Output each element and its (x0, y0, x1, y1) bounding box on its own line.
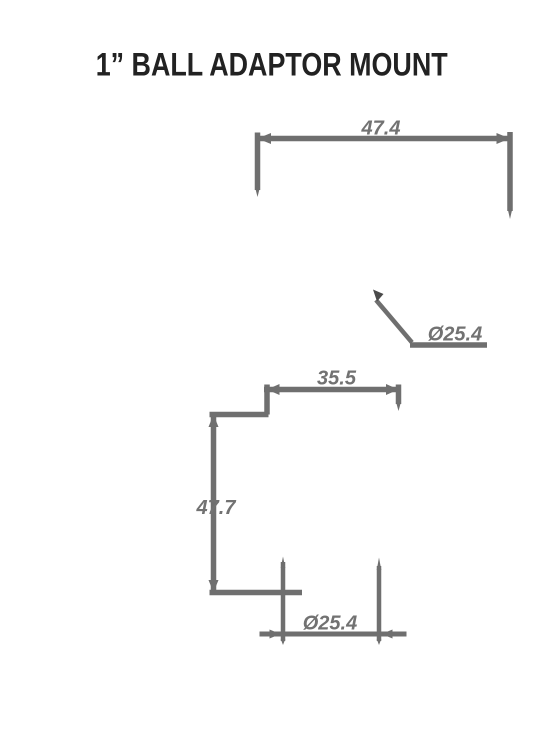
svg-text:47.4: 47.4 (361, 118, 401, 140)
svg-text:Ø25.4: Ø25.4 (303, 613, 357, 635)
svg-text:Ø25.4: Ø25.4 (428, 324, 482, 346)
svg-text:1” BALL ADAPTOR MOUNT: 1” BALL ADAPTOR MOUNT (96, 47, 448, 83)
svg-text:47.7: 47.7 (196, 497, 237, 519)
svg-text:35.5: 35.5 (317, 368, 357, 390)
